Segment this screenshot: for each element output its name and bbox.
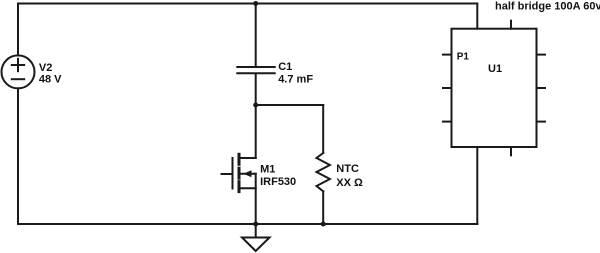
transistor M1 channel bar middle xyxy=(238,168,241,178)
wire U1 top lead vertical xyxy=(476,4,478,29)
svg-text:XX Ω: XX Ω xyxy=(336,177,363,189)
U1 pin right 2 xyxy=(537,87,546,89)
voltage source V2 circle xyxy=(2,55,35,88)
op-amp U1 box xyxy=(452,29,537,147)
U1 pin right 1 xyxy=(537,54,546,56)
V2 plus sign xyxy=(12,59,24,71)
svg-text:C1: C1 xyxy=(278,61,292,73)
svg-text:V2: V2 xyxy=(39,62,52,74)
U1 pin bottom stub xyxy=(510,147,512,155)
wire U1 bottom lead to rail xyxy=(476,147,478,224)
wire left vertical V2 top lead xyxy=(17,4,19,56)
capacitor C1 bottom plate xyxy=(237,72,274,74)
node junction dot capacitor bottom xyxy=(253,103,258,108)
ground triangle symbol xyxy=(242,238,270,252)
svg-text:4.7 mF: 4.7 mF xyxy=(278,74,313,86)
wire top rail from V2 to U1 xyxy=(18,3,477,5)
svg-text:half bridge 100A 60v: half bridge 100A 60v xyxy=(495,0,600,12)
V2 minus sign xyxy=(12,78,24,80)
node junction dot top rail xyxy=(253,1,258,6)
transistor M1 channel bar top xyxy=(238,154,241,164)
svg-text:P1: P1 xyxy=(457,51,470,62)
transistor M1 gate lead stub xyxy=(222,173,233,175)
U1 pin left 2 xyxy=(443,87,452,89)
U1 pin left 3 xyxy=(443,121,452,123)
svg-text:U1: U1 xyxy=(488,63,502,75)
wire capacitor top lead xyxy=(255,4,257,67)
capacitor C1 top plate xyxy=(237,66,274,68)
transistor M1 body arrow line xyxy=(241,173,256,175)
transistor M1 gate bar xyxy=(232,158,234,189)
wire NTC bottom vertical xyxy=(322,191,324,224)
ground stub xyxy=(255,224,257,238)
svg-text:M1: M1 xyxy=(260,163,275,175)
transistor M1 channel bar bottom xyxy=(238,182,241,192)
wire M1 drain vertical xyxy=(255,105,257,158)
node junction dot NTC bottom rail xyxy=(321,222,326,227)
wire NTC top vertical xyxy=(322,105,324,153)
U1 pin top stub xyxy=(510,21,512,29)
wire M1 source vertical to bottom rail xyxy=(255,174,257,224)
wire capacitor bottom lead to node xyxy=(255,74,257,105)
svg-text:48 V: 48 V xyxy=(39,74,62,86)
resistor NTC zigzag body xyxy=(317,153,330,191)
wire bottom rail xyxy=(18,223,477,225)
transistor M1 source horizontal lead xyxy=(240,187,256,189)
transistor M1 arrow head xyxy=(243,170,251,177)
U1 pin left 1 (P1) xyxy=(443,54,452,56)
transistor M1 drain horizontal lead xyxy=(240,157,256,159)
wire node to NTC branch horizontal xyxy=(256,104,324,106)
node junction dot ground on rail xyxy=(253,222,258,227)
svg-text:IRF530: IRF530 xyxy=(260,176,296,188)
wire left vertical V2 bottom lead xyxy=(17,88,19,224)
U1 pin right 3 xyxy=(537,121,546,123)
svg-text:NTC: NTC xyxy=(336,163,359,175)
